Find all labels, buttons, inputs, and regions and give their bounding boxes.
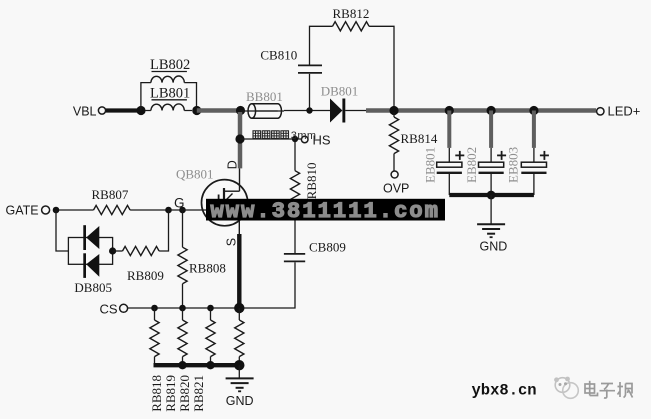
inductor LB801 xyxy=(145,110,192,112)
node C (drain branch tap) xyxy=(236,106,245,115)
wire source (thick) xyxy=(237,234,241,308)
capacitor EB801 xyxy=(448,148,450,162)
svg-text:D: D xyxy=(225,160,239,169)
node cap bus junction xyxy=(487,191,496,200)
node CS tap RB818 xyxy=(151,305,158,312)
diode DB801 xyxy=(345,110,367,112)
svg-text:DB801: DB801 xyxy=(321,84,359,99)
resistor RB821 xyxy=(238,308,240,320)
svg-text:RB807: RB807 xyxy=(92,187,129,202)
polarity + EB803 xyxy=(540,154,549,156)
wire sense bottom bus xyxy=(154,363,240,367)
node B (LB right) xyxy=(192,106,201,115)
wire EB801 stub (gray) xyxy=(447,111,451,148)
wire RB810 upper lead xyxy=(294,139,296,171)
wire RB807 to node G xyxy=(130,209,168,211)
svg-text:GND: GND xyxy=(480,240,508,254)
svg-text:G: G xyxy=(174,196,185,211)
capacitor CB810 xyxy=(298,64,322,66)
svg-text:RB809: RB809 xyxy=(127,268,164,283)
wire main bus to LED+ (gray) xyxy=(366,108,596,113)
svg-text:RB819: RB819 xyxy=(163,375,178,412)
wire DB805 to RB809 xyxy=(113,250,123,252)
svg-text:S: S xyxy=(224,238,238,246)
resistor RB818 xyxy=(154,308,156,320)
resistor RB810 xyxy=(290,171,299,208)
node gate input xyxy=(53,207,60,214)
svg-text:CB809: CB809 xyxy=(309,239,346,254)
svg-text:EB801: EB801 xyxy=(422,147,437,183)
wire drain branch (gray) xyxy=(238,112,243,168)
wire through bead xyxy=(241,110,285,112)
svg-text:EB803: EB803 xyxy=(506,147,521,183)
wire gate to RB807 xyxy=(59,209,94,211)
resistor RB820 xyxy=(210,308,212,320)
svg-text:RB808: RB808 xyxy=(189,261,226,276)
wire CB810 lower lead xyxy=(309,74,311,111)
svg-text:www.3811111.com: www.3811111.com xyxy=(211,199,441,224)
node bus tap EB803 xyxy=(529,106,538,115)
node DB805 output xyxy=(109,247,116,254)
node bus tap EB801 xyxy=(445,106,454,115)
wire RB812 to bus node xyxy=(369,26,394,108)
watermark box xyxy=(206,199,445,221)
terminal HS xyxy=(301,136,308,143)
wire HS xyxy=(240,138,301,140)
svg-text:BB801: BB801 xyxy=(246,89,283,104)
node CS tap RB820 xyxy=(207,305,214,312)
wire bus LB to bead (gray) xyxy=(197,108,241,113)
ground GND (sense) xyxy=(226,377,254,379)
wire bead to snubber tap xyxy=(284,110,330,112)
svg-text:EB802: EB802 xyxy=(464,147,479,183)
terminal CS xyxy=(120,304,128,312)
svg-text:RB818: RB818 xyxy=(149,375,164,412)
svg-text:CS: CS xyxy=(100,302,118,317)
node sense bus RB820 xyxy=(206,361,214,369)
resistor RB807 xyxy=(94,205,131,214)
node G2 (RB808 tap) xyxy=(179,207,186,214)
capacitor CB809 xyxy=(284,253,305,255)
node A (LB left) xyxy=(136,106,145,115)
svg-text:OVP: OVP xyxy=(383,182,409,196)
logo 电子报 xyxy=(585,381,633,398)
resistor RB814 xyxy=(393,112,395,117)
node HS tap xyxy=(235,134,244,143)
wire cap bank bottom bus xyxy=(449,193,534,197)
capacitor EB803 xyxy=(533,148,535,162)
svg-text:RB812: RB812 xyxy=(333,6,370,21)
wire EB803 stub (gray) xyxy=(532,111,536,148)
logo panda xyxy=(555,378,570,393)
node RB810 tap xyxy=(292,136,298,142)
node CS tap RB819 xyxy=(179,305,186,312)
wire CB809 to source node xyxy=(239,262,295,308)
node E (RB814/RB812 tap) xyxy=(389,106,398,115)
inductor LB802 parallel branch xyxy=(141,83,197,111)
terminal OVP xyxy=(391,171,398,178)
node sense bus RB819 xyxy=(178,361,186,369)
node bus tap EB802 xyxy=(487,106,496,115)
svg-text:QB801: QB801 xyxy=(176,167,214,182)
svg-text:RB810: RB810 xyxy=(304,163,319,200)
terminal VBL xyxy=(98,107,105,114)
wire RB810 to CB809 xyxy=(294,207,296,253)
node G1 (RB809 tap) xyxy=(165,207,172,214)
ground GND (cap bank) xyxy=(477,223,505,225)
polarity + EB802 xyxy=(497,154,506,156)
resistor RB819 xyxy=(182,308,184,320)
wire cap bus to ground xyxy=(490,195,492,224)
terminal GATE xyxy=(42,206,50,214)
wire VBL input stub xyxy=(106,108,142,112)
diode pair DB805 xyxy=(68,238,112,265)
svg-text:RB814: RB814 xyxy=(401,131,438,146)
wire RB809 to gate node xyxy=(159,210,168,251)
svg-text:VBL: VBL xyxy=(73,104,97,118)
polarity + EB801 xyxy=(455,154,464,156)
wire CS line xyxy=(128,307,239,309)
svg-text:ybx8.cn: ybx8.cn xyxy=(472,381,537,399)
svg-text:GND: GND xyxy=(226,394,254,408)
transistor QB801 xyxy=(202,180,248,226)
capacitor EB802 xyxy=(490,148,492,162)
note 默认安装3mm xyxy=(253,131,261,139)
node sense bus GND junction xyxy=(234,360,244,370)
svg-text:RB821: RB821 xyxy=(191,375,206,412)
wire GATE down to DB805 xyxy=(56,210,68,251)
wire sense bus to ground xyxy=(238,365,240,378)
wire CB810 to RB812 xyxy=(310,26,333,65)
svg-text:RB820: RB820 xyxy=(177,375,192,412)
node CS source junction xyxy=(234,303,244,313)
svg-text:LED+: LED+ xyxy=(608,103,641,118)
svg-text:GATE: GATE xyxy=(6,203,39,217)
resistor RB809 xyxy=(123,246,160,255)
svg-text:LB802: LB802 xyxy=(150,57,190,73)
ferrite bead BB801 xyxy=(252,104,282,118)
resistor RB812 xyxy=(333,22,370,31)
node D (snubber left tap) xyxy=(306,107,312,113)
svg-text:CB810: CB810 xyxy=(260,48,297,63)
wire EB802 stub (gray) xyxy=(489,111,493,148)
svg-text:DB805: DB805 xyxy=(74,280,112,295)
svg-text:LB801: LB801 xyxy=(150,85,190,101)
terminal LED+ xyxy=(597,108,604,115)
resistor RB808 xyxy=(182,210,184,247)
wire node G to MOSFET gate xyxy=(169,209,219,211)
